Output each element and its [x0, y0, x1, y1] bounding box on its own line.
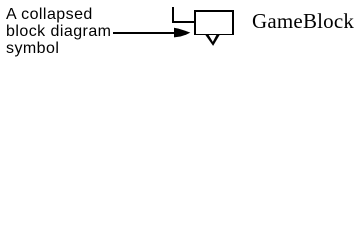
- collapsed block symbol: pin horizontal line into block: [172, 21, 196, 23]
- label: caption "A collapsed block diagram symbol": [6, 6, 111, 57]
- collapsed block symbol: collapse indicator triangle (open, apex down): [205, 35, 219, 46]
- arrowhead pointing right: [174, 28, 190, 38]
- label: block name "GameBlock": [252, 10, 354, 33]
- wire: arrow shaft from caption to symbol: [113, 32, 176, 34]
- collapsed block symbol: block rectangle outline: [194, 10, 234, 35]
- collapsed block symbol: top-left pin vertical line: [172, 7, 174, 23]
